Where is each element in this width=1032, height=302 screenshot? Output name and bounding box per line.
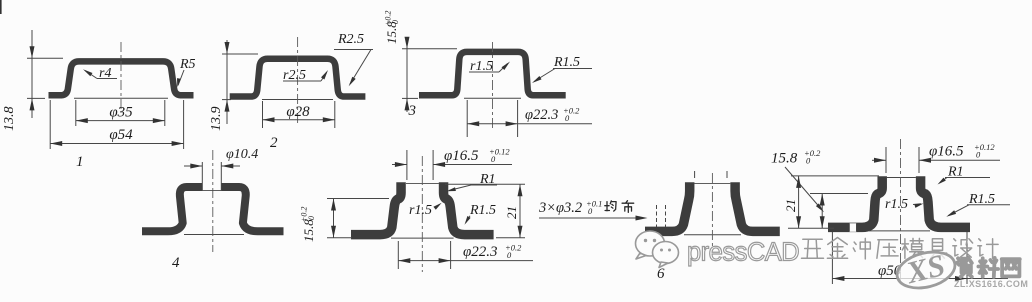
phi50 arrow left fig7 — [832, 276, 844, 281]
phi54 ext left — [49, 100, 51, 149]
svg-text:φ22.3: φ22.3 — [463, 244, 498, 260]
part 5 neck far edge — [406, 183, 439, 185]
fig2 bottom extension — [222, 99, 231, 101]
svg-text:6: 6 — [657, 266, 665, 282]
15.8 leader arrow fig7 — [816, 203, 824, 212]
watermark char wang — [1002, 259, 1020, 276]
R1.5 arrow fig7 — [946, 210, 956, 217]
part 6 right half — [735, 182, 780, 231]
svg-text:0: 0 — [307, 216, 316, 220]
phi16.5 arrow left fig5 — [395, 162, 407, 167]
part 2 far-edge line — [262, 99, 333, 101]
part 6 far-edge line — [684, 234, 741, 236]
r1.5 leader fig5 — [436, 205, 440, 208]
R1 underline fig5 — [470, 184, 497, 186]
part 3 centerline — [492, 42, 494, 130]
tol 15.8 fig5 — [300, 207, 317, 222]
part 1 centerline — [120, 42, 122, 113]
fig5 top arrow — [331, 199, 336, 211]
svg-text:φ54: φ54 — [109, 127, 133, 143]
fig5 21 top arrow — [518, 184, 523, 196]
part 6 left half — [645, 182, 690, 231]
tol 3x phi3.2 — [586, 199, 602, 217]
svg-text:R5: R5 — [179, 57, 196, 72]
svg-text:R1.5: R1.5 — [553, 55, 580, 70]
watermark CJK char 8 — [978, 239, 998, 258]
part 3 sheet profile — [419, 52, 566, 95]
phi50 arrow right fig7 — [955, 276, 967, 281]
phi22.3 ext left fig5 — [397, 241, 399, 269]
fig7 neck-top extension — [791, 175, 879, 177]
phi22.3 ext right fig5 — [450, 241, 452, 269]
phi16.5 arrow right fig7 — [919, 158, 931, 163]
phi10.4 ext left — [201, 162, 203, 191]
phi28 dim line — [263, 119, 335, 121]
svg-text:1: 1 — [76, 154, 84, 170]
fig5 bottom arrow — [331, 226, 336, 238]
3x phi3.2 arrow — [636, 216, 648, 221]
r2.5 leader — [321, 73, 327, 82]
svg-text:r1.5: r1.5 — [409, 203, 432, 218]
fig3 bottom extension — [402, 97, 418, 99]
fig7 21 top arrow — [796, 176, 801, 188]
R1 leader fig5 — [449, 185, 471, 191]
phi54 arrow right — [172, 141, 184, 146]
watermark char zi — [957, 258, 972, 277]
R1.5 arrow fig3 — [532, 76, 542, 83]
svg-text:φ10.4: φ10.4 — [226, 147, 258, 162]
phi54 arrow left — [50, 141, 62, 146]
svg-text:21: 21 — [783, 199, 798, 212]
fig7 15.8 dim line — [821, 194, 823, 229]
svg-text:21: 21 — [504, 206, 519, 219]
phi16.5 dim seg left fig5 — [392, 164, 407, 166]
phi50 ext right fig7 — [966, 232, 968, 284]
svg-text:ZL.XS1616.COM: ZL.XS1616.COM — [954, 279, 1028, 289]
15.8 leader fig7 — [785, 167, 823, 211]
part 6 hole ext left — [694, 171, 696, 178]
phi16.5 arrow left fig7 — [874, 158, 886, 163]
phi16.5 arrow right fig5 — [433, 162, 445, 167]
phi22.3 dim line fig5 — [398, 260, 533, 262]
svg-text:φ16.5: φ16.5 — [929, 144, 964, 160]
r2.5 arrow — [321, 70, 328, 80]
r4 arrow — [83, 69, 93, 76]
R5 leader — [178, 70, 184, 86]
part 4 left half — [142, 187, 202, 231]
r1.5 leader fig3 — [499, 64, 508, 73]
part 3 far-edge line — [464, 97, 521, 99]
edge artifact top-left — [0, 0, 2, 14]
watermark char liao — [978, 258, 998, 277]
part 5 right half — [444, 182, 494, 234]
phi22.3 ext left fig3 — [466, 100, 468, 137]
hidden hole line right — [665, 205, 667, 232]
fig5 21 bottom arrow — [518, 226, 523, 238]
part 7 neck far edge — [887, 177, 916, 179]
text bu (CJK) — [622, 201, 634, 213]
phi28 arrow right — [323, 117, 335, 122]
phi28 arrow left — [263, 117, 275, 122]
fig7 21 bottom arrow — [796, 216, 801, 228]
part 7 left half — [828, 176, 882, 227]
R1.5 leader fig3 — [534, 69, 555, 82]
tol phi16.5 fig5 — [489, 147, 510, 165]
watermark CJK char 5 — [902, 238, 923, 258]
svg-text:13.8: 13.8 — [2, 107, 17, 132]
watermark CJK char 1 — [802, 239, 824, 258]
R5 arrow — [177, 78, 181, 87]
phi50 dim line fig7 — [832, 278, 1008, 280]
R1 arrow fig7 — [938, 178, 946, 185]
R1.5 arrow fig5 — [465, 216, 471, 225]
phi22.3 arrow left fig5 — [398, 258, 410, 263]
phi54 ext right — [183, 100, 185, 149]
phi35 ext right — [164, 100, 166, 126]
fig5 flange extension right — [496, 237, 525, 239]
phi35 arrow right — [153, 118, 165, 123]
svg-text:r1.5: r1.5 — [885, 197, 908, 212]
svg-text:φ22.3: φ22.3 — [525, 107, 558, 123]
watermark CJK char 3 — [853, 238, 870, 259]
tol 15.8 fig7 — [804, 148, 821, 166]
r1.5 arrow fig5 — [433, 203, 441, 210]
fig2 bottom arrow — [225, 100, 230, 112]
tol fig3 — [384, 11, 401, 26]
part 1 far-edge line — [74, 97, 168, 99]
text jun (CJK) — [605, 201, 616, 211]
svg-text:pressCAD: pressCAD — [687, 239, 799, 267]
watermark CJK char 6 — [928, 239, 946, 258]
R2.5 leader — [350, 50, 371, 85]
fig5 bottom extension — [327, 237, 352, 239]
R1.5 leader fig7 — [949, 205, 970, 216]
fig3 top extension — [402, 48, 457, 50]
phi10.4 arrow right — [221, 164, 233, 169]
svg-text:3: 3 — [408, 103, 417, 119]
svg-text:φ28: φ28 — [286, 104, 310, 120]
fig2 top arrow — [225, 42, 230, 54]
phi10.4 arrow left — [190, 164, 202, 169]
R1.5 leader fig5 — [466, 216, 470, 223]
phi22.3 arrow right fig5 — [439, 258, 451, 263]
svg-text:4: 4 — [172, 255, 180, 271]
tol phi22.3 fig5 — [505, 243, 522, 261]
part 6 hole ext right — [726, 171, 728, 178]
svg-text:3×φ3.2: 3×φ3.2 — [538, 200, 582, 216]
fig2 top extension — [222, 53, 258, 55]
svg-text:13.9: 13.9 — [209, 107, 224, 132]
fig1 13.8 dim line — [31, 30, 33, 118]
fig5 21 dim line — [519, 184, 521, 238]
phi10.4 dim line right — [221, 165, 240, 167]
phi22.3 arrow right fig3 — [506, 121, 518, 126]
svg-text:φ16.5: φ16.5 — [444, 148, 479, 164]
part 5 far-edge line — [391, 237, 454, 239]
r4 leader — [85, 71, 97, 79]
R2.5 underline — [334, 49, 373, 51]
phi16.5 ext right fig7 — [918, 147, 920, 173]
part 2 centerline — [297, 37, 299, 126]
part 4 right half — [221, 187, 283, 231]
phi28 ext right — [334, 101, 336, 128]
phi54 dim line — [50, 143, 183, 145]
watermark CJK char 2 — [827, 238, 847, 259]
tol phi16.5 fig7 — [974, 142, 995, 160]
r1.5 underline fig3 — [469, 71, 499, 73]
watermark mascot: chat bubbles — [636, 231, 679, 268]
R1.5 underline fig7 — [967, 204, 1010, 206]
phi16.5 dim seg right fig5 — [433, 164, 512, 166]
phi35 dim line — [76, 120, 165, 122]
svg-text:0: 0 — [391, 20, 400, 24]
3x phi3.2 leader — [539, 217, 645, 219]
part 7 right half — [921, 176, 970, 227]
tol phi22.3 fig3 — [563, 106, 580, 124]
fig1 bottom arrow (up) — [30, 98, 35, 110]
part 7 hole edge right — [855, 224, 857, 232]
R1.5 underline fig3 — [553, 68, 592, 70]
part 7 flange hole cut — [849, 223, 856, 232]
phi10.4 ext right — [220, 162, 222, 191]
phi35 ext left — [75, 100, 77, 126]
svg-text:2: 2 — [270, 135, 278, 151]
fig7 15.8 bottom arrow — [820, 216, 825, 228]
phi10.4 dim line left — [184, 165, 202, 167]
watermark CJK char 4 — [877, 240, 898, 258]
part 7 centerline — [900, 139, 902, 285]
part 2 sheet profile — [230, 59, 366, 97]
watermark CJK char 7 — [953, 239, 973, 257]
fig5 15.8 dim line — [333, 199, 335, 238]
svg-text:15.8: 15.8 — [771, 151, 798, 167]
part 4 centerline — [212, 150, 214, 252]
phi16.5 ext left fig7 — [885, 147, 887, 173]
phi22.3 arrow left fig3 — [467, 121, 479, 126]
phi16.5 dim seg right fig7 — [919, 159, 1000, 161]
r2.5 underline — [283, 80, 321, 82]
fig3 bottom arrow — [405, 98, 410, 110]
fig1 bottom extension — [27, 97, 45, 99]
phi22.3 ext right fig3 — [517, 100, 519, 137]
fig3 15.8 dim line — [406, 38, 408, 112]
r1.5 arrow fig3 — [502, 62, 511, 71]
phi16.5 ext left fig5 — [406, 150, 408, 180]
part 7 far-edge line — [869, 230, 930, 232]
part 6 neck far edge — [695, 183, 731, 185]
phi35 arrow left — [76, 118, 88, 123]
fig3 top arrow — [405, 37, 410, 49]
fig7 bottom extension — [788, 227, 834, 229]
phi16.5 dim seg left fig7 — [872, 159, 886, 161]
R1 arrow fig5 — [447, 187, 456, 191]
phi16.5 ext right fig5 — [432, 150, 434, 180]
r4 underline — [97, 78, 117, 80]
fig5 shoulder extension — [327, 198, 389, 200]
svg-text:R1.5: R1.5 — [469, 203, 496, 218]
fig7 shoulder extension — [810, 193, 868, 195]
part 5 left half — [351, 182, 401, 234]
fig7 21 dim line — [798, 176, 800, 228]
fig7 15.8 top arrow — [820, 194, 825, 206]
part 5 centerline — [421, 156, 423, 272]
watermark XS oval logo — [893, 244, 959, 293]
phi28 ext left — [262, 101, 264, 128]
part 4 far-edge line — [184, 234, 244, 236]
svg-text:φ35: φ35 — [109, 105, 133, 121]
svg-text:R2.5: R2.5 — [337, 32, 364, 47]
part 1 sheet profile — [49, 61, 194, 95]
r1.5 leader fig7 — [913, 203, 921, 206]
R2.5 arrow — [349, 77, 356, 87]
fig1 top arrow (down) — [30, 46, 35, 58]
fig2 13.9 dim line — [226, 40, 228, 124]
fig5 neck-top extension — [445, 183, 525, 185]
r1.5 arrow fig7 — [914, 204, 923, 208]
hidden hole line left — [656, 205, 658, 232]
phi50 ext left fig7 — [831, 232, 833, 284]
part 6 centerline — [711, 173, 713, 249]
part 7 hole edge left — [848, 224, 850, 232]
R1 underline fig7 — [945, 177, 990, 179]
phi22.3 dim line fig3 — [467, 123, 592, 125]
fig1 top extension — [27, 57, 63, 59]
R1 leader fig7 — [940, 178, 948, 184]
part 4 hole far edge — [202, 190, 221, 192]
